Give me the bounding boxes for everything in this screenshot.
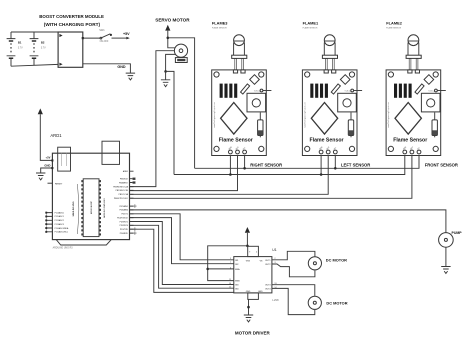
flame sensor module FLAME1 (left) [302, 35, 362, 156]
wire: arduino GND pin [41, 168, 53, 173]
svg-text:B2: B2 [41, 40, 45, 44]
svg-text:PD2/INT0: PD2/INT0 [120, 225, 128, 227]
svg-text:OUT3: OUT3 [265, 285, 271, 287]
wire: servo gnd to GND bus [166, 71, 174, 174]
svg-text:SERVO MOTOR: SERVO MOTOR [155, 17, 190, 22]
node: boost +5V output junction [82, 37, 84, 39]
svg-text:PUMP: PUMP [452, 231, 463, 235]
svg-text:4: 4 [256, 251, 257, 253]
node: GND pin pad [51, 167, 53, 169]
wire: +5V bus under sensors [195, 154, 419, 168]
wire: driver gnd stem [248, 299, 250, 315]
switch SW1 [99, 29, 112, 43]
wire: PD5 to IN1 [130, 214, 234, 260]
atmega chip (DIP) [81, 179, 101, 237]
svg-text:6: 6 [230, 267, 231, 269]
node: s2 vcc junction [334, 167, 337, 170]
wire: ENA pin [208, 268, 234, 270]
svg-text:ENA: ENA [235, 268, 240, 271]
driver pin numbers [229, 251, 276, 288]
battery B1 [7, 32, 23, 66]
driver bottom notch (GND) [248, 293, 259, 300]
svg-text:GND: GND [258, 291, 263, 293]
wire: OUT1 to motor1 top [272, 251, 315, 259]
node: +5V pin pad [51, 159, 53, 161]
flame sensor module FLAME3 (right) [212, 35, 272, 156]
motor driver U1 box [234, 257, 272, 293]
svg-text:PD7/AIN1: PD7/AIN1 [119, 205, 127, 208]
node: servo +5V branch [167, 37, 170, 40]
svg-text:B1: B1 [18, 40, 22, 44]
ground (driver) [244, 315, 253, 322]
svg-text:ON-OFF: ON-OFF [100, 41, 109, 43]
wire: sensor2 OUT to PB1 [130, 154, 329, 194]
svg-text:U1: U1 [272, 248, 276, 252]
node: s2 gnd junction [320, 173, 323, 176]
svg-text:GND: GND [117, 65, 126, 69]
ground (arduino) [36, 173, 45, 180]
svg-text:ATMEGA328P: ATMEGA328P [90, 200, 93, 214]
power flag +5V (arduino, up arrow) [38, 108, 43, 114]
boost converter box [58, 32, 83, 67]
wire: switch to +5V [112, 37, 127, 39]
svg-text:DC MOTOR: DC MOTOR [326, 257, 347, 262]
arduino bottom trapezoid [56, 240, 111, 245]
svg-text:SW1: SW1 [99, 29, 105, 32]
wire: battery bottom rail [11, 64, 58, 66]
wire: sensor1 Vcc down [244, 154, 246, 168]
ground (pump) [441, 267, 450, 274]
svg-text:AREF: AREF [123, 170, 129, 173]
svg-text:FRONT SENSOR: FRONT SENSOR [425, 163, 458, 168]
svg-text:12: 12 [229, 287, 231, 289]
node: s1 vcc junction [243, 167, 246, 170]
svg-text:7: 7 [230, 262, 231, 264]
svg-text:PD0/RXD: PD0/RXD [120, 233, 129, 235]
svg-text:OUT2: OUT2 [265, 264, 271, 266]
pump motor [439, 233, 454, 248]
ground (servo) [161, 80, 170, 87]
svg-text:PB2/SS/OC1B: PB2/SS/OC1B [116, 190, 129, 192]
arduino right side pin stubs [130, 171, 134, 233]
svg-text:PB5/SCK: PB5/SCK [120, 179, 129, 181]
svg-text:PC2/ADC2: PC2/ADC2 [55, 219, 64, 222]
power flag +5V (driver, up arrow) [245, 227, 250, 233]
wire: +5V flag to VSS notch [246, 233, 248, 247]
svg-text:FLAME SENSOR: FLAME SENSOR [212, 26, 227, 29]
svg-text:GND: GND [44, 163, 50, 167]
node: ENA junction [206, 268, 209, 271]
wire: OUT2 to motor1 bottom [272, 264, 315, 277]
node: driver +5V junction [246, 245, 249, 248]
wire: +5V flag down to servo pin A [168, 31, 175, 48]
svg-text:ARD1: ARD1 [50, 133, 62, 138]
svg-text:PB3/MOSI/OC2A: PB3/MOSI/OC2A [113, 185, 128, 188]
servo motor body [175, 58, 187, 63]
svg-text:9: 9 [249, 251, 250, 253]
wire: GND bus under sensors [174, 154, 405, 175]
wire: +5V branch to sensors Vcc bus [168, 38, 195, 169]
dc motor M2 [308, 296, 321, 309]
wire: servo gnd pin [166, 54, 176, 71]
pin arrow input bottom [59, 63, 62, 66]
svg-text:ARDUINO SIMULINO: ARDUINO SIMULINO [103, 198, 106, 218]
analog pins PC0-PC5 [45, 211, 69, 233]
node: gnd stem junction [247, 306, 250, 309]
wire: sensor1 OUT to PB2 [130, 154, 238, 191]
svg-text:FLAME1: FLAME1 [303, 20, 319, 25]
wire: PD6 to pump [130, 210, 446, 233]
pin end crosses [133, 178, 137, 235]
wire: sensor2 Vcc down [334, 154, 336, 168]
arduino board outline [52, 153, 129, 239]
svg-text:PB0/ICP1/CLKO: PB0/ICP1/CLKO [114, 198, 129, 200]
wire: sensor2 GND down [320, 154, 322, 175]
wire: PD3 to IN3 [130, 222, 234, 285]
driver pin labels [235, 260, 271, 293]
node: s1 gnd junction [229, 173, 232, 176]
svg-text:ARDUINO UNO R3: ARDUINO UNO R3 [53, 247, 74, 250]
wire: PD4 to IN2 [130, 218, 234, 264]
svg-text:FLAME2: FLAME2 [386, 20, 402, 25]
dc motor M1 [308, 257, 321, 270]
wire: OUT3 to motor2 top [272, 285, 315, 296]
svg-text:OUT1: OUT1 [265, 260, 271, 262]
wire: pump gnd stem [445, 247, 447, 266]
svg-text:LEFT SENSOR: LEFT SENSOR [341, 163, 370, 168]
svg-text:RIGHT SENSOR: RIGHT SENSOR [250, 163, 282, 168]
power flag +5V (servo, up arrow) [165, 25, 170, 31]
svg-text:GND: GND [246, 291, 251, 293]
svg-text:PC3/ADC3: PC3/ADC3 [55, 223, 64, 226]
svg-text:PD5/T1: PD5/T1 [121, 214, 127, 216]
wire: battery top rail [11, 31, 58, 33]
svg-text:10: 10 [229, 283, 231, 285]
wire: sensor1 GND down [229, 154, 231, 175]
svg-text:11: 11 [229, 279, 231, 281]
svg-text:FLAME3: FLAME3 [212, 20, 228, 25]
wire: sensor3 OUT to PB0 [130, 154, 412, 198]
arduino usb connector [58, 147, 71, 171]
wire: +5V to ENA/ENB [208, 246, 248, 281]
wire: OUT4 to motor2 bottom [272, 288, 315, 314]
wire: boost GND output [83, 64, 131, 73]
svg-text:DC MOTOR: DC MOTOR [326, 301, 347, 306]
svg-text:PC0/ADC0: PC0/ADC0 [55, 211, 64, 214]
driver top notch (VSS/VS) [248, 246, 259, 256]
svg-text:PD1/TXD: PD1/TXD [120, 229, 129, 231]
wire: PD1 to driver gnd corner [130, 229, 234, 292]
wire: +5V to arduino [40, 114, 52, 160]
svg-text:FLAME SENSOR: FLAME SENSOR [386, 26, 401, 29]
svg-text:L298: L298 [272, 298, 279, 302]
svg-text:RESET: RESET [55, 183, 63, 185]
svg-text:PB4/MISO: PB4/MISO [119, 182, 128, 184]
svg-text:3.7V: 3.7V [18, 48, 23, 50]
svg-text:5: 5 [230, 258, 231, 260]
wire: servo signal to arduino PB3 [130, 51, 175, 187]
svg-text:PC5/ADC5/SCL: PC5/ADC5/SCL [55, 231, 68, 234]
svg-text:MOTOR DRIVER: MOTOR DRIVER [235, 330, 271, 335]
svg-text:BOOST CONVERTER MODULE: BOOST CONVERTER MODULE [39, 14, 104, 19]
svg-text:ENB: ENB [235, 281, 240, 283]
wire: boost output to switch [83, 37, 101, 39]
svg-text:SIMULINO UNO: SIMULINO UNO [73, 201, 75, 216]
node: servo gnd junction [164, 70, 167, 73]
wire: servo gnd stem [165, 71, 167, 79]
power flag +5V (right arrow) [126, 37, 130, 40]
arduino power jack [102, 141, 120, 164]
pin: RESET stub [48, 182, 53, 184]
flame sensor module FLAME2 (front) [386, 35, 446, 156]
svg-text:(WITH CHARGING PORT): (WITH CHARGING PORT) [44, 22, 101, 27]
svg-text:PD6/AIN0: PD6/AIN0 [119, 209, 127, 212]
svg-text:PC1/ADC1: PC1/ADC1 [55, 215, 64, 218]
wire: PD2 to IN4 [130, 225, 234, 288]
svg-text:+5V: +5V [46, 156, 51, 160]
pin arrow input top [59, 34, 62, 37]
ground (boost module) [126, 73, 135, 80]
svg-text:3.7V: 3.7V [41, 48, 46, 50]
battery B2 [30, 32, 46, 65]
svg-text:OUT4: OUT4 [265, 288, 271, 290]
svg-text:PC4/ADC4/SDA: PC4/ADC4/SDA [55, 227, 69, 230]
svg-text:PD3/INT1: PD3/INT1 [120, 221, 128, 223]
arduino right side pin labels [113, 170, 128, 235]
svg-text:PB1/OC1A: PB1/OC1A [119, 193, 129, 196]
svg-text:PD4/T0/XCK: PD4/T0/XCK [117, 217, 129, 219]
svg-text:VSS: VSS [246, 261, 251, 263]
svg-text:+5V: +5V [123, 32, 130, 36]
svg-text:FLAME SENSOR: FLAME SENSOR [303, 26, 318, 29]
